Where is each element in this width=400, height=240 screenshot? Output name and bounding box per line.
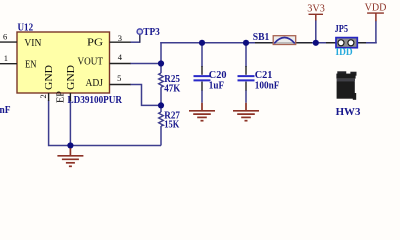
resistor R27 [159, 112, 164, 126]
ground below C21 [233, 103, 259, 121]
wire VDD drop [375, 21, 377, 43]
test point TP3 [137, 29, 142, 34]
svg-text:U12: U12 [18, 22, 34, 34]
pin 3 PG [110, 41, 131, 43]
svg-text:LD39100PUR: LD39100PUR [68, 94, 123, 106]
wire C20 drop [201, 43, 203, 67]
wire VOUT vertical rail [160, 42, 162, 73]
power port VDD [367, 12, 384, 14]
wire ADJ feedback [130, 85, 161, 106]
svg-text:GND: GND [65, 65, 77, 90]
hardware jumper shunt HW3 [336, 71, 356, 100]
power port 3V3 [309, 13, 324, 15]
svg-text:6: 6 [3, 32, 7, 42]
junction 3V3 [313, 40, 319, 46]
svg-text:15K: 15K [164, 119, 179, 131]
capacitor C21 pins [245, 66, 247, 75]
wire VOUT pin to rail [130, 63, 161, 65]
svg-text:47K: 47K [164, 82, 180, 94]
svg-text:EP: EP [55, 91, 67, 103]
svg-text:VIN: VIN [24, 37, 41, 49]
solder bridge SB1 [273, 36, 296, 45]
wire bottom gnd rail [49, 100, 161, 146]
junction VOUT/R25 [158, 60, 164, 66]
svg-text:1uF: 1uF [209, 80, 225, 92]
pin 5 ADJ [110, 84, 131, 86]
svg-text:HW3: HW3 [336, 106, 361, 118]
wire C21 drop [245, 43, 247, 67]
capacitor C20 [194, 75, 211, 77]
svg-text:5: 5 [117, 73, 121, 83]
black pin stubs near SB1 and JP5 [255, 42, 274, 44]
svg-text:2: 2 [38, 94, 48, 98]
test point TP3 pin stub [139, 35, 141, 43]
capacitor C21 [238, 75, 255, 77]
pin 1 EN [0, 63, 17, 65]
resistor R25 [159, 73, 164, 87]
svg-text:4: 4 [118, 52, 123, 62]
junction C21 top [243, 40, 249, 46]
svg-text:SB1: SB1 [253, 31, 269, 43]
svg-text:1: 1 [4, 53, 8, 63]
svg-text:GND: GND [43, 65, 55, 90]
svg-text:3V3: 3V3 [307, 2, 325, 14]
svg-text:PG: PG [87, 36, 103, 48]
svg-text:EN: EN [25, 59, 37, 71]
svg-text:3: 3 [118, 33, 122, 43]
svg-text:100nF: 100nF [255, 80, 280, 92]
regulator U12 body [17, 32, 110, 93]
wire top rail [160, 42, 273, 44]
svg-text:nF: nF [0, 104, 11, 116]
jumper JP5 [336, 38, 357, 48]
svg-text:ADJ: ADJ [86, 77, 104, 89]
svg-text:JP5: JP5 [335, 23, 349, 35]
ground below U12 [57, 148, 83, 166]
capacitor C20 pins [201, 66, 203, 75]
junction GND rail [67, 142, 73, 148]
pin 6 VIN [0, 41, 17, 43]
wire 3V3 drop [315, 20, 317, 43]
wire PG to TP3 [130, 41, 140, 43]
junction R25/R27/ADJ [158, 102, 164, 108]
svg-text:VDD: VDD [365, 1, 387, 13]
bottom pin GND left [48, 93, 50, 101]
junction C20 top [199, 40, 205, 46]
svg-text:VOUT: VOUT [78, 56, 104, 68]
svg-text:TP3: TP3 [143, 26, 160, 38]
svg-text:IDD: IDD [336, 46, 353, 58]
bottom pin GND right [69, 93, 71, 101]
ground below C20 [189, 103, 215, 121]
pin 4 VOUT [110, 63, 131, 65]
